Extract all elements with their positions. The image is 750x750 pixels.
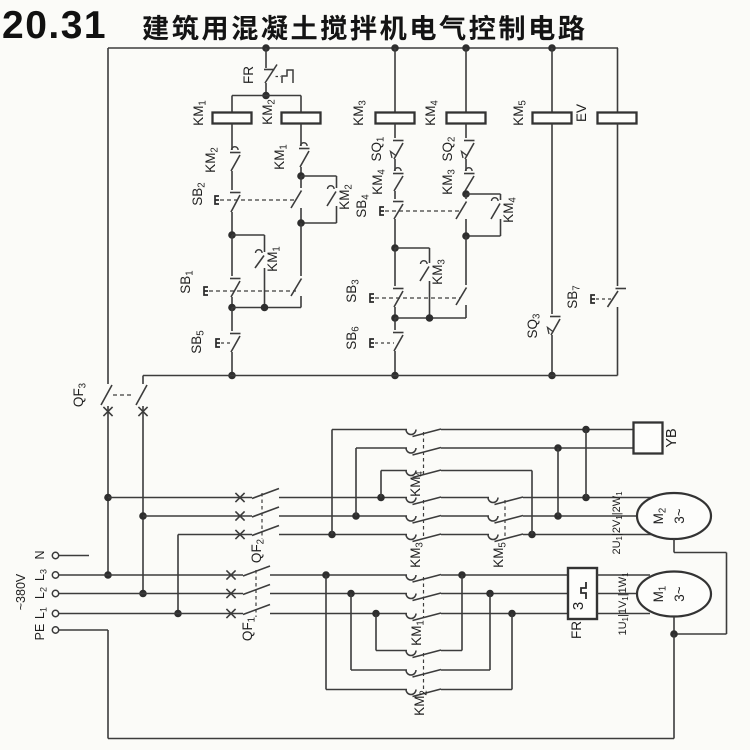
linkage dashed KM2 bank	[423, 653, 425, 693]
solenoid coil EV	[598, 113, 637, 124]
node top rail KM4 branch	[462, 44, 470, 52]
linkage dashed KM1 bank	[423, 577, 425, 617]
wire M1 stub U	[597, 574, 650, 576]
label SB6	[344, 326, 362, 349]
contactor coil KM5	[533, 113, 572, 124]
main contact KM5 pole1	[488, 498, 498, 503]
wire M frame to PE rail	[673, 634, 675, 739]
contactor coil KM3	[376, 113, 415, 124]
node L2 row	[139, 590, 147, 598]
wire N stub	[59, 555, 89, 557]
wire KM4 row3 drop	[531, 471, 533, 535]
label KM4 bank	[408, 471, 426, 497]
breaker QF2 pole 3	[235, 526, 279, 540]
linkage dashed SB4	[385, 210, 461, 212]
wire KM1 branch seg3	[231, 212, 233, 235]
wire KM4 row1 right	[441, 429, 634, 431]
linkage dashed KM5 bank	[504, 500, 506, 538]
node KM4 parallel top	[462, 190, 470, 198]
breaker QF1 pole 1	[226, 566, 270, 580]
wire PE run	[59, 629, 108, 631]
contactor coil KM2	[282, 113, 321, 124]
wire EV branch long	[617, 124, 619, 287]
wire M1 stub W	[597, 613, 650, 615]
wire row L2 mid	[270, 593, 407, 595]
motor M1 circle	[637, 572, 711, 617]
wire KM2 branch seg1	[300, 124, 302, 147]
NC aux contact KM4 in KM3 branch	[393, 168, 404, 191]
node bottom rail SB5	[228, 372, 236, 380]
wire QF3 pole1 down	[107, 406, 109, 575]
svg-text:2U1|2V1|2W1: 2U1|2V1|2W1	[611, 491, 624, 555]
node top rail / FR branch	[262, 44, 270, 52]
label KM1 bank	[409, 620, 427, 646]
main contact KM2 pole3	[406, 690, 416, 695]
label SB2	[190, 182, 208, 205]
label N	[33, 550, 47, 559]
label KM2 coil	[260, 99, 278, 125]
label ~380V	[14, 573, 28, 610]
node FR split	[262, 92, 270, 100]
pushbutton SB7 NC	[591, 289, 626, 308]
node KM2 parallel top	[297, 172, 305, 180]
node row V2 drop	[554, 512, 562, 520]
wire row U2 mid	[279, 497, 407, 499]
contactor coil KM4	[447, 113, 486, 124]
wire control top rail	[108, 47, 618, 49]
label L3	[33, 569, 49, 581]
node KM2 return L2	[486, 590, 494, 598]
pushbutton SB3 NC pole	[370, 248, 404, 307]
pushbutton SB4 NO pole	[456, 194, 467, 236]
wire row U2 right	[523, 497, 652, 499]
label KM1 aux	[265, 246, 283, 272]
label L1	[33, 607, 49, 619]
node KM2 parallel bottom	[297, 219, 305, 227]
node KM1 aux join	[261, 304, 269, 312]
main contact KM1 pole2	[406, 594, 416, 599]
self-hold contact KM3 (NO aux)	[395, 248, 430, 318]
wire KM1 branch seg4	[231, 297, 233, 308]
wire KM3 branch seg6	[394, 351, 396, 376]
label KM2 bank	[412, 690, 430, 716]
label M2 3~	[672, 508, 687, 524]
wire coil split rail	[232, 95, 301, 97]
wire KM5 branch long	[551, 124, 553, 315]
node top rail KM5 branch	[548, 44, 556, 52]
brake solenoid YB	[634, 423, 663, 454]
NC aux contact KM2 in KM1 branch	[230, 147, 241, 171]
svg-text:3~: 3~	[672, 508, 687, 524]
label KM2 aux	[203, 147, 221, 173]
wire row L3 mid	[270, 574, 407, 576]
label SB4	[354, 194, 372, 218]
node bottom rail SQ3	[548, 372, 556, 380]
motor M2 circle	[637, 493, 711, 539]
linkage dashed SB5	[221, 342, 231, 344]
wire return to M1 node	[674, 633, 727, 635]
wire KM4 branch seg1	[465, 124, 467, 139]
wire drop to KM1 coil	[231, 96, 233, 114]
wire FR branch lower	[265, 83, 267, 96]
svg-text:FR: FR	[241, 66, 256, 84]
wire KM4 branch seg2	[465, 159, 467, 171]
wire KM4 row3 left	[381, 470, 407, 472]
wire EV branch lower	[617, 307, 619, 376]
wire row W2 mid	[279, 534, 407, 536]
wire KM2 row3 right	[441, 689, 512, 691]
wire KM5 branch lower	[551, 335, 553, 376]
title text 建筑用混凝土搅拌机电气控制电路	[143, 15, 585, 41]
wire PE bottom rail	[108, 738, 674, 740]
wire drop YB phase B	[557, 448, 559, 516]
node KM4 parallel bottom	[462, 232, 470, 240]
wire row V2 mid	[279, 515, 407, 517]
label PE	[33, 624, 47, 641]
node L1 row	[174, 610, 182, 618]
pushbutton SB4 NC pole	[380, 202, 404, 220]
wire KM4 row3 riser	[380, 471, 382, 498]
wire KM4 row3 right	[441, 470, 532, 472]
breaker QF1 pole 3	[226, 605, 270, 619]
wire KM2 drop B	[350, 594, 352, 671]
node KM3 branch join	[391, 314, 399, 322]
wire M2 pigtail right	[674, 552, 727, 554]
svg-text:N: N	[33, 550, 47, 559]
wire KM4 row2 riser	[355, 448, 357, 516]
pushbutton SB6 NC	[370, 318, 404, 351]
linkage dashed QF3	[113, 394, 134, 396]
limit switch SQ1 NC	[391, 141, 404, 160]
terminal L1	[52, 610, 58, 616]
main contact KM2 pole1	[406, 651, 416, 656]
svg-text:~380V: ~380V	[14, 573, 28, 610]
label KM3 interlock	[440, 169, 458, 195]
main contact KM4 pole1	[406, 430, 416, 435]
svg-text:PE: PE	[33, 624, 47, 641]
breaker QF2 pole 2	[235, 507, 279, 521]
wire KM3 branch seg1	[394, 124, 396, 139]
node KM2 return L3	[458, 571, 466, 579]
wire KM4 branch feed	[465, 48, 467, 113]
thermal overload contact FR	[264, 65, 293, 84]
wire KM1 branch seg5	[231, 352, 233, 376]
node KM2 tap L2	[347, 590, 355, 598]
node KM4 row1 drop	[582, 426, 590, 434]
wire row V2 gap1	[441, 515, 489, 517]
terminal PE	[52, 627, 58, 633]
wire EV branch feed	[617, 48, 619, 113]
label FR block 3	[570, 602, 587, 610]
wire M1 pigtail	[673, 617, 675, 635]
terminal L3	[52, 572, 58, 578]
label QF3	[71, 383, 89, 407]
node KM2 tap L1	[372, 610, 380, 618]
label KM3 bank	[408, 542, 426, 568]
node top rail KM3 branch	[391, 44, 399, 52]
linkage dashed QF2	[261, 493, 263, 539]
linkage dashed KM4 bank	[423, 432, 425, 474]
wire row U2 left	[108, 497, 252, 499]
wire KM2 drop C	[375, 614, 377, 651]
pushbutton SB3 NO pole	[456, 236, 467, 305]
linkage dashed SB7	[596, 298, 611, 300]
main contact KM4 pole2	[406, 448, 416, 453]
linkage dashed SB2	[220, 199, 296, 201]
node KM2 return L1	[508, 610, 516, 618]
wire KM3 branch seg5	[394, 307, 396, 318]
node QF2 feed L3	[104, 494, 112, 502]
wire row L2 left	[59, 593, 243, 595]
wire KM3 branch seg2	[394, 159, 396, 171]
wire KM2 branch to rail	[300, 296, 302, 308]
pushbutton SB2 NO pole	[291, 176, 302, 223]
NC aux contact KM3 in KM4 branch	[464, 168, 475, 191]
label SB3	[344, 279, 362, 302]
wire KM4 branch seg3	[465, 191, 467, 194]
wire FR branch upper	[265, 48, 267, 68]
pushbutton SB1 NO pole	[291, 223, 302, 296]
wire KM4 branch to rail y318	[465, 305, 467, 318]
breaker QF3 pole 1	[101, 385, 113, 416]
linkage dashed SB1	[209, 290, 296, 292]
node KM1 self-hold tap	[228, 231, 236, 239]
node row V2 tap	[352, 512, 360, 520]
node KM3 self-hold tap	[391, 244, 399, 252]
svg-text:FR: FR	[569, 621, 584, 639]
label KM4 interlock	[370, 169, 388, 195]
wire M1 stub V	[597, 593, 650, 595]
main contact KM3 pole3	[406, 535, 416, 540]
wire M2 pigtail down	[673, 539, 675, 553]
wire KM4 row2 left	[356, 447, 407, 449]
main contact KM3 pole2	[406, 516, 416, 521]
limit switch SQ2 NC	[462, 141, 475, 160]
wire join rail y308	[232, 307, 301, 309]
label M1 3~	[672, 586, 687, 602]
main contact KM1 pole3	[406, 614, 416, 619]
svg-text:YB: YB	[664, 428, 680, 447]
pushbutton SB5 NC	[216, 308, 241, 353]
node row W2 drop	[528, 531, 536, 539]
label SQ1	[369, 137, 387, 162]
label KM2 aux	[337, 184, 355, 210]
wire KM1 branch seg1	[231, 124, 233, 151]
linkage dashed SB3	[375, 297, 460, 299]
NC aux contact KM1 in KM2 branch	[299, 143, 310, 167]
self-hold contact KM2 (NO aux)	[301, 176, 337, 223]
label FR block	[569, 621, 584, 639]
label KM5 coil	[511, 100, 529, 126]
limit switch SQ3 NC	[548, 317, 561, 336]
wire row L3 left	[59, 574, 243, 576]
wire row L1 right	[441, 613, 568, 615]
label KM4 aux	[501, 197, 519, 223]
main contact KM3 pole1	[406, 498, 416, 503]
wire KM2 drop A	[325, 575, 327, 690]
svg-text:3: 3	[570, 602, 587, 610]
main contact KM2 pole2	[406, 670, 416, 675]
pushbutton SB1 NC pole	[204, 235, 241, 297]
wire drop YB phase A	[585, 430, 587, 498]
label KM5 bank	[491, 542, 509, 568]
thermal relay FR heater block	[568, 568, 597, 619]
label M2	[651, 508, 669, 525]
breaker QF1 pole 2	[226, 585, 270, 599]
label M1	[651, 586, 669, 603]
label KM3 coil	[351, 100, 369, 126]
label YB	[664, 428, 680, 447]
wire left frame	[107, 48, 109, 384]
node KM2 tap L3	[322, 571, 330, 579]
label SQ2	[440, 137, 458, 162]
wire row W2 right	[523, 534, 652, 536]
label M2 terminals 2U1 2V1 2W1	[611, 491, 624, 555]
node L3 row	[104, 571, 112, 579]
wire right return rail	[726, 553, 728, 635]
wire row L3 right	[441, 574, 568, 576]
main contact KM1 pole1	[406, 575, 416, 580]
svg-text:3~: 3~	[672, 586, 687, 602]
wire row W2 gap1	[441, 534, 489, 536]
wire KM2 row3 left	[326, 689, 407, 691]
terminal L2	[52, 590, 58, 596]
label KM4 coil	[423, 100, 441, 126]
wire KM2 branch seg2	[300, 167, 302, 176]
label SB1	[178, 270, 196, 293]
node KM1 branch join left	[228, 304, 236, 312]
main contact KM5 pole2	[488, 516, 498, 521]
wire PE drop	[107, 630, 109, 739]
label SQ3	[525, 314, 543, 339]
label L2	[33, 587, 49, 599]
wire KM4 row2 right	[441, 447, 634, 449]
label QF1	[240, 617, 258, 641]
FR heater element symbol	[581, 584, 586, 597]
wire KM2 row1 left	[376, 650, 407, 652]
svg-text:1U1|1V1|1W1: 1U1|1V1|1W1	[617, 572, 630, 636]
wire row V2 right	[523, 515, 652, 517]
contactor coil KM1	[213, 113, 252, 124]
linkage dashed KM3 bank	[423, 500, 425, 538]
wire KM4 row1 riser	[331, 430, 333, 535]
wire row L1 left	[59, 613, 243, 615]
label SB7	[565, 285, 583, 308]
wire KM2 row1 right	[441, 650, 462, 652]
label EV coil	[574, 104, 589, 122]
label KM1 coil	[191, 100, 209, 126]
node KM3 aux join	[426, 314, 434, 322]
linkage dashed QF1	[255, 570, 257, 617]
breaker QF2 pole 1	[235, 489, 279, 503]
wire join rail y318	[395, 317, 466, 319]
node bottom rail SB6	[391, 372, 399, 380]
wire KM3 branch feed	[394, 48, 396, 113]
node PE junction	[670, 630, 678, 638]
wire KM1 branch seg2	[231, 171, 233, 190]
self-hold contact KM1 (NO aux)	[232, 235, 265, 308]
node row W2 tap	[328, 531, 336, 539]
label KM1 interlock	[272, 144, 290, 170]
breaker QF3 pole 2	[136, 376, 148, 417]
main contact KM4 pole3	[406, 471, 416, 476]
label QF2	[249, 539, 267, 563]
terminal N	[52, 552, 58, 558]
wire KM5 branch feed	[551, 48, 553, 113]
self-hold contact KM4 (NO aux)	[466, 194, 501, 236]
wire QF2 row3 feed	[177, 535, 179, 614]
label SB5	[189, 330, 207, 353]
node row U2 drop	[582, 494, 590, 502]
wire drop to KM2 coil	[300, 96, 302, 114]
wire KM2 row2 right	[441, 669, 490, 671]
svg-text:20.31: 20.31	[2, 4, 107, 47]
label FR	[241, 66, 256, 84]
pushbutton SB2 NC pole	[215, 193, 241, 213]
node QF2 feed L2	[139, 512, 147, 520]
main contact KM5 pole3	[488, 535, 498, 540]
wire KM2 row2 left	[351, 669, 407, 671]
node row U2 tap	[377, 494, 385, 502]
wire KM3 branch seg3	[394, 191, 396, 199]
wire row L2 right	[441, 593, 568, 595]
wire QF3 pole2 down	[142, 406, 144, 594]
label KM3 aux	[430, 259, 448, 285]
wire KM3 branch seg4	[394, 219, 396, 248]
node KM4 row2 drop	[554, 444, 562, 452]
linkage dashed SB6	[375, 342, 394, 344]
wire row L1 mid	[270, 613, 407, 615]
svg-text:EV: EV	[574, 104, 589, 122]
wire control bottom rail	[143, 375, 618, 377]
wire row V2 left	[143, 515, 252, 517]
label M1 terminals 1U1 1V1 1W1	[617, 572, 630, 636]
wire row U2 gap1	[441, 497, 489, 499]
wire KM4 row1 left	[332, 429, 407, 431]
wire row W2 left	[178, 534, 252, 536]
